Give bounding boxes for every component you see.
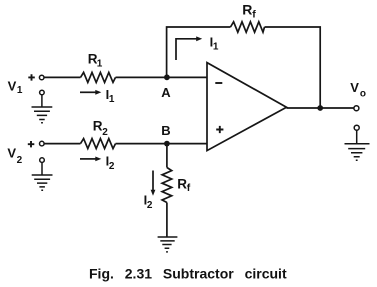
- svg-text:V: V: [7, 145, 16, 160]
- label Rf feedback value: [242, 2, 256, 21]
- svg-text:R: R: [242, 2, 252, 18]
- output junction dot: [317, 105, 323, 111]
- label node B: [161, 123, 170, 138]
- wire R2 to op-amp non-inverting input through node B: [116, 143, 208, 145]
- label I2 (under R2): [106, 154, 115, 172]
- wire op-amp output to Vo: [287, 107, 354, 109]
- ground symbol right: [345, 130, 370, 160]
- wire node B down to Rf: [166, 144, 168, 168]
- svg-text:B: B: [161, 123, 170, 138]
- resistor Rf (feedback): [231, 22, 265, 32]
- label I1 (under R1): [106, 87, 115, 105]
- wire Rf to ground: [166, 203, 168, 238]
- ground symbol under Rf: [158, 237, 178, 252]
- ground symbol V2: [32, 162, 53, 190]
- svg-text:R: R: [177, 176, 187, 191]
- op-amp plus input symbol: [216, 126, 223, 133]
- svg-text:2: 2: [109, 161, 115, 172]
- current arrow I1 (under R1): [80, 90, 101, 95]
- label V1: [8, 79, 23, 97]
- node B junction dot: [164, 141, 170, 147]
- op-amp minus input symbol: [215, 82, 222, 84]
- caption Fig. 2.31 Subtractor circuit: [89, 266, 287, 282]
- resistor Rf (to ground): [162, 168, 172, 203]
- resistor R1: [81, 72, 116, 82]
- current arrow I1 (feedback branch): [176, 36, 202, 60]
- terminal V1 + circle: [39, 75, 44, 80]
- resistor R2: [81, 139, 116, 149]
- svg-text:f: f: [187, 182, 191, 194]
- label R2: [93, 119, 108, 138]
- terminal Vo circle: [354, 106, 359, 111]
- ground symbol V1: [32, 95, 53, 123]
- ground circle under V1: [40, 90, 45, 95]
- plus sign V2: [28, 141, 35, 147]
- svg-text:1: 1: [109, 94, 115, 105]
- svg-text:V: V: [350, 80, 359, 95]
- svg-text:Fig. 2.31 Subtractor circuit: Fig. 2.31 Subtractor circuit: [89, 266, 287, 282]
- svg-text:V: V: [8, 79, 17, 94]
- ground circle right: [354, 125, 359, 130]
- svg-text:2: 2: [147, 200, 153, 211]
- svg-text:2: 2: [17, 155, 23, 166]
- wire V1 to R1: [44, 76, 81, 78]
- current arrow I2 (under R2): [80, 157, 101, 162]
- wire feedback top: node A up, across, down to output: [167, 27, 321, 108]
- label node A: [161, 85, 171, 100]
- wire V2 to R2: [44, 143, 80, 145]
- label V2: [7, 145, 22, 166]
- svg-text:1: 1: [17, 85, 23, 96]
- svg-text:f: f: [252, 9, 256, 21]
- label Rf (to ground): [177, 176, 191, 193]
- label I1 (top): [210, 34, 219, 52]
- ground circle under V2: [40, 158, 45, 163]
- svg-text:2: 2: [102, 127, 108, 138]
- op-amp U1: [207, 63, 287, 151]
- terminal V2 + circle: [40, 141, 45, 146]
- node A junction dot: [164, 74, 170, 80]
- svg-text:A: A: [161, 85, 171, 100]
- plus sign V1: [28, 74, 35, 80]
- current arrow I2 (through Rf): [151, 171, 156, 196]
- svg-text:1: 1: [213, 42, 219, 53]
- svg-text:1: 1: [97, 59, 103, 70]
- label I2 (through Rf): [144, 193, 153, 211]
- svg-text:o: o: [360, 88, 366, 99]
- label Vo: [350, 80, 366, 100]
- label R1: [88, 51, 103, 69]
- wire R1 to op-amp inverting input through node A: [116, 76, 208, 78]
